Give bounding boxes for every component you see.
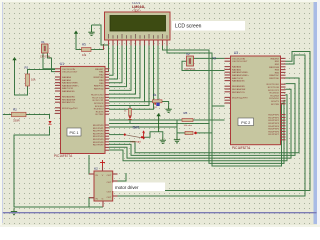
- svg-text:PIC16F877A: PIC16F877A: [232, 146, 251, 150]
- svg-text:PIC 1: PIC 1: [70, 131, 79, 135]
- svg-text:MCLR/Vpp/THV: MCLR/Vpp/THV: [62, 108, 78, 110]
- svg-text:RC5/SDO: RC5/SDO: [94, 109, 104, 111]
- svg-text:10k ohm: 10k ohm: [184, 125, 193, 127]
- svg-text:SW1: SW1: [133, 125, 140, 129]
- svg-text:G: G: [102, 199, 104, 201]
- svg-text:interrupt: interrupt: [131, 139, 141, 143]
- svg-text:RC6/TX: RC6/TX: [271, 101, 279, 103]
- svg-text:RC6/TX: RC6/TX: [96, 111, 104, 113]
- svg-text:RC4/SDI: RC4/SDI: [95, 106, 104, 108]
- svg-text:PIC 2: PIC 2: [241, 121, 250, 125]
- svg-text:RD5/PSP5: RD5/PSP5: [268, 129, 279, 131]
- svg-text:OUT: OUT: [107, 182, 112, 184]
- svg-text:U2: U2: [94, 167, 98, 171]
- svg-text:RE1/AN6/WR: RE1/AN6/WR: [232, 88, 246, 91]
- svg-text:RD0/PSP0: RD0/PSP0: [268, 115, 279, 117]
- svg-text:PIC16F877A: PIC16F877A: [54, 154, 73, 158]
- svg-text:RA5/AN4/SS: RA5/AN4/SS: [232, 80, 245, 83]
- svg-text:RA5/AN4/SS: RA5/AN4/SS: [62, 90, 75, 93]
- svg-text:RB0/INT: RB0/INT: [271, 58, 280, 60]
- svg-text:IO: IO: [213, 57, 217, 61]
- svg-text:10k: 10k: [31, 78, 36, 82]
- svg-text:RA2/AN2/VREF-: RA2/AN2/VREF-: [232, 71, 249, 74]
- svg-text:RD6/PSP6: RD6/PSP6: [93, 142, 104, 144]
- svg-text:10k: 10k: [82, 53, 87, 57]
- svg-text:RB3/PGM: RB3/PGM: [269, 67, 279, 69]
- svg-text:RC1/T1OSI: RC1/T1OSI: [92, 97, 104, 99]
- svg-text:RE0/AN5/RD: RE0/AN5/RD: [232, 85, 245, 88]
- svg-text:OSC1/CLKIN: OSC1/CLKIN: [232, 58, 245, 60]
- svg-text:RD4/PSP4: RD4/PSP4: [93, 136, 104, 138]
- svg-text:OSC2/CLKOUT: OSC2/CLKOUT: [62, 72, 78, 74]
- svg-text:RB7/PGD: RB7/PGD: [94, 88, 104, 90]
- svg-text:RD0/PSP0: RD0/PSP0: [93, 125, 104, 127]
- svg-text:RB3/PGM: RB3/PGM: [94, 77, 104, 79]
- svg-text:RD4/PSP4: RD4/PSP4: [268, 126, 279, 128]
- svg-text:CRYSTAL: CRYSTAL: [185, 68, 196, 71]
- svg-text:RC3/SCK: RC3/SCK: [270, 93, 280, 95]
- svg-text:U3: U3: [234, 51, 238, 55]
- svg-text:U1: U1: [60, 62, 64, 66]
- svg-text:RA4/T0CKI: RA4/T0CKI: [62, 87, 73, 90]
- svg-text:RA4/T0CKI: RA4/T0CKI: [232, 77, 243, 80]
- svg-text:RC2/CCP1: RC2/CCP1: [268, 90, 280, 92]
- svg-text:R4: R4: [153, 93, 157, 97]
- svg-text:RA1/AN1: RA1/AN1: [62, 79, 72, 82]
- svg-text:OUT: OUT: [107, 192, 112, 194]
- svg-text:RE0/AN5/RD: RE0/AN5/RD: [62, 96, 75, 99]
- svg-text:RD3/PSP3: RD3/PSP3: [268, 123, 279, 125]
- svg-text:RD3/PSP3: RD3/PSP3: [93, 133, 104, 135]
- svg-text:RC2/CCP1: RC2/CCP1: [93, 100, 105, 102]
- svg-text:OSC1/CLKIN: OSC1/CLKIN: [62, 69, 75, 71]
- svg-text:RB6/PGC: RB6/PGC: [94, 86, 104, 88]
- svg-text:motor driver: motor driver: [115, 185, 139, 190]
- svg-text:RC7/RX: RC7/RX: [271, 104, 280, 106]
- svg-text:RB0/INT: RB0/INT: [95, 69, 104, 71]
- svg-text:RE2/AN7/CS: RE2/AN7/CS: [232, 91, 245, 94]
- svg-text:OSC2/CLKOUT: OSC2/CLKOUT: [232, 61, 248, 63]
- svg-text:RD2/PSP2: RD2/PSP2: [93, 131, 104, 133]
- svg-text:RA3/AN3/VREF+: RA3/AN3/VREF+: [232, 74, 250, 77]
- svg-text:X2: X2: [186, 52, 190, 56]
- svg-text:RE1/AN6/WR: RE1/AN6/WR: [62, 98, 76, 101]
- svg-text:CRYSTAL: CRYSTAL: [40, 56, 51, 59]
- svg-text:RA0/AN0: RA0/AN0: [62, 76, 72, 79]
- svg-text:RA2/AN2/VREF-: RA2/AN2/VREF-: [62, 82, 79, 85]
- svg-text:RD7/PSP7: RD7/PSP7: [268, 134, 279, 136]
- svg-text:RD7/PSP7: RD7/PSP7: [93, 145, 104, 147]
- svg-text:RD6/PSP6: RD6/PSP6: [268, 131, 279, 133]
- svg-text:RC3/SCK: RC3/SCK: [94, 103, 104, 105]
- svg-text:R1: R1: [25, 66, 29, 70]
- svg-text:RE2/AN7/CS: RE2/AN7/CS: [62, 101, 75, 104]
- svg-text:RC0/T1OSO: RC0/T1OSO: [267, 84, 280, 86]
- svg-text:RC4/SDI: RC4/SDI: [270, 95, 279, 97]
- svg-text:MCLR/Vpp/THV: MCLR/Vpp/THV: [232, 97, 248, 99]
- svg-text:RD2/PSP2: RD2/PSP2: [268, 120, 279, 122]
- svg-text:330R: 330R: [13, 119, 20, 123]
- svg-text:RA1/AN1: RA1/AN1: [232, 68, 242, 71]
- svg-text:RC7/RX: RC7/RX: [95, 114, 104, 116]
- svg-text:OUT: OUT: [107, 197, 112, 199]
- svg-text:R5: R5: [184, 111, 188, 115]
- svg-text:RB6/PGC: RB6/PGC: [269, 75, 279, 77]
- svg-text:RA3/AN3/VREF+: RA3/AN3/VREF+: [62, 84, 80, 87]
- svg-text:RA0/AN0: RA0/AN0: [232, 66, 242, 69]
- svg-text:R2: R2: [13, 108, 17, 112]
- svg-text:LM044L: LM044L: [132, 5, 146, 9]
- svg-text:RC0/T1OSO: RC0/T1OSO: [91, 95, 104, 97]
- svg-text:RC5/SDO: RC5/SDO: [269, 98, 279, 100]
- svg-text:RD5/PSP5: RD5/PSP5: [93, 139, 104, 141]
- svg-text:RD1/PSP1: RD1/PSP1: [93, 128, 104, 130]
- svg-text:RC1/T1OSI: RC1/T1OSI: [268, 87, 280, 89]
- svg-text:OUT: OUT: [107, 175, 112, 177]
- svg-text:R3: R3: [82, 43, 86, 47]
- svg-text:RB7/PGD: RB7/PGD: [269, 78, 279, 80]
- svg-text:LCD screen: LCD screen: [175, 24, 202, 30]
- svg-text:RD1/PSP1: RD1/PSP1: [268, 117, 279, 119]
